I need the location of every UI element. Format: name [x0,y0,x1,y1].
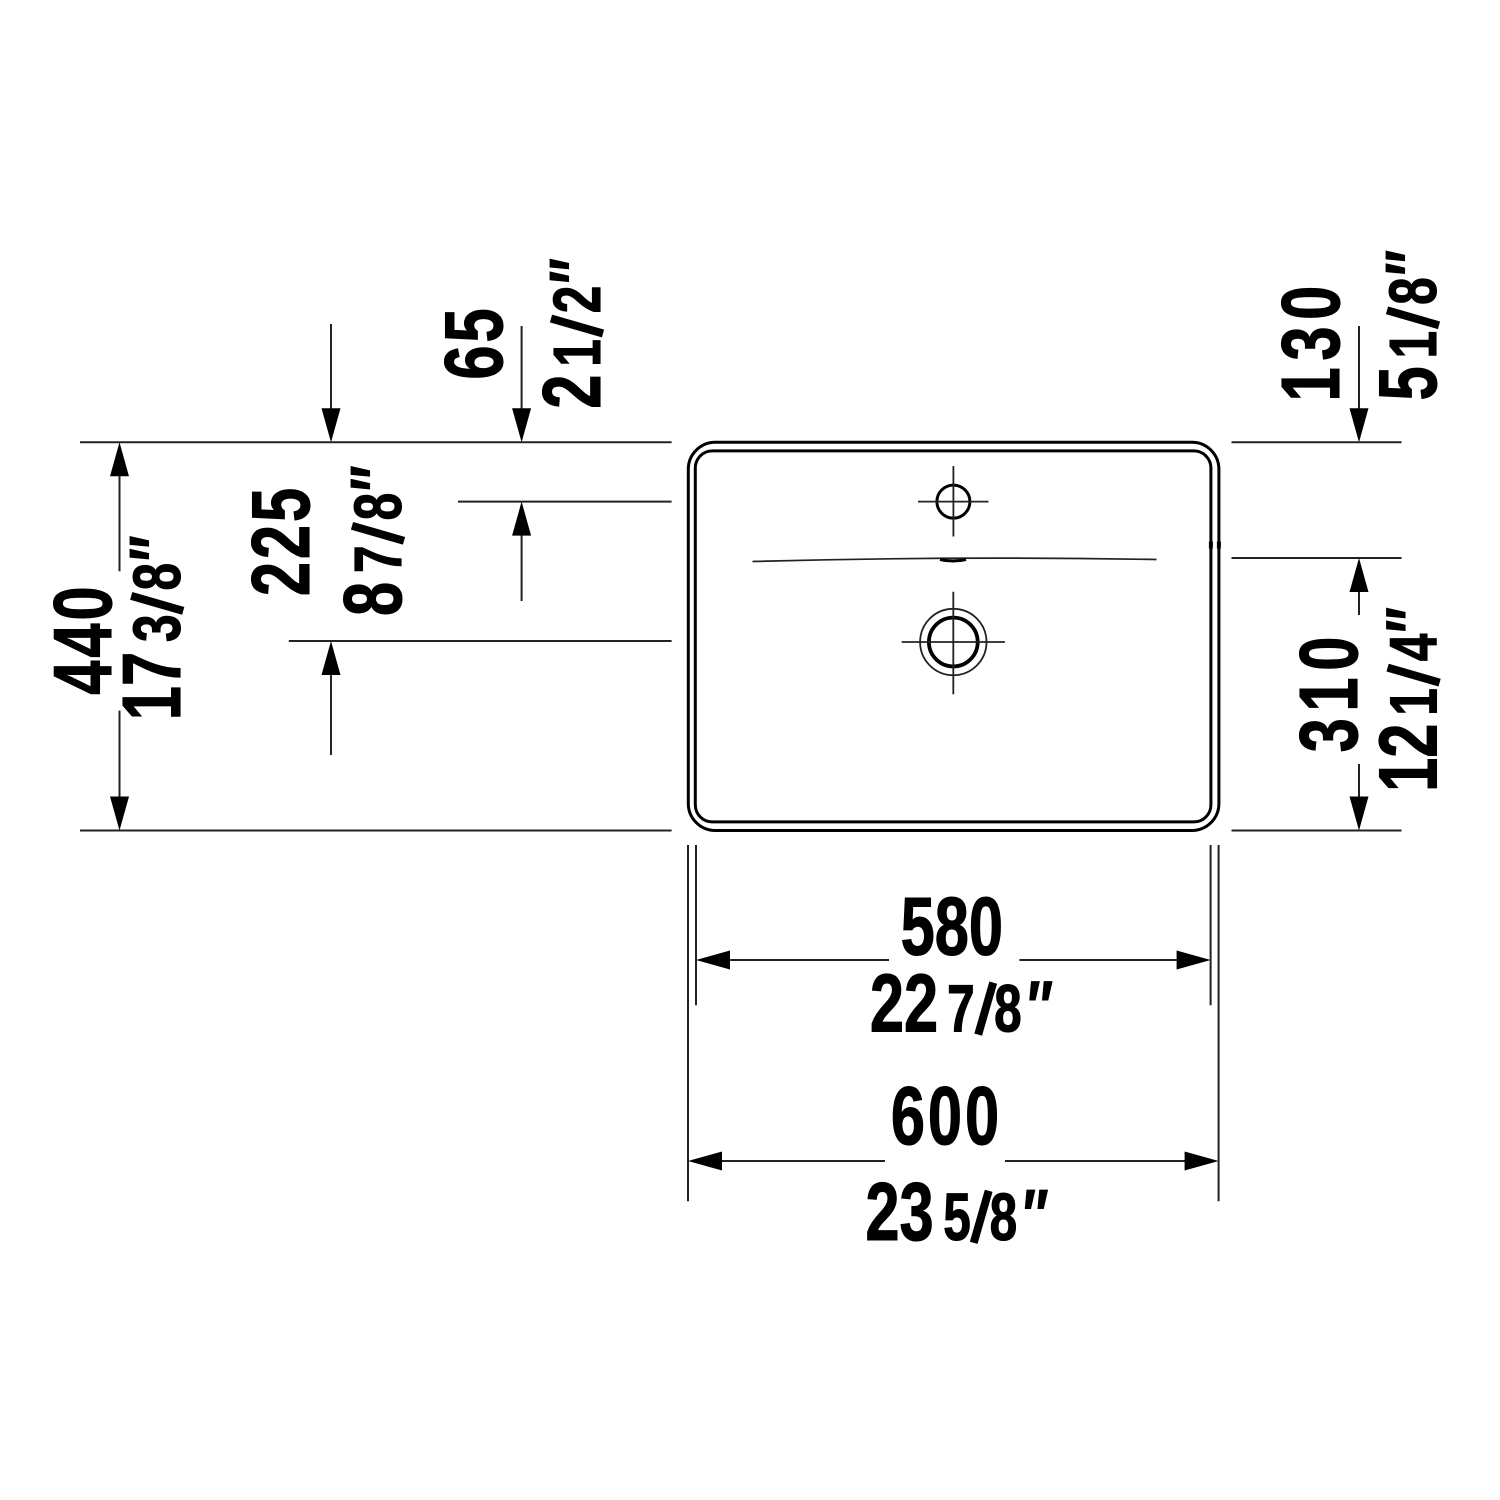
drain crosshair vertical [952,592,954,695]
svg-text:″: ″ [117,536,197,562]
basin inner rim [695,451,1211,822]
extension line 600 right vertical [1218,845,1220,1201]
drain outer circle [920,609,986,675]
svg-text:4: 4 [1377,634,1451,662]
dimension 130 arrow tail [1358,326,1360,410]
faucet hole circle [937,485,970,518]
svg-text:8: 8 [990,1181,1018,1255]
svg-text:130: 130 [1265,279,1357,401]
extension line top edge left [80,441,672,443]
extension line bottom edge left [80,830,672,832]
dimension 440 arrow down [110,797,129,831]
svg-text:″: ″ [1372,250,1452,276]
svg-text:1: 1 [541,339,615,367]
svg-text:1: 1 [1377,331,1451,359]
faucet crosshair vertical [952,466,954,537]
svg-text:65: 65 [428,305,520,379]
label 2 1/2 inch [526,258,618,408]
svg-text:3: 3 [121,614,195,642]
label 23 5/8 inch [865,1166,1048,1258]
dimension 130 arrow (down) [1350,408,1369,442]
dimension 600 line right [1005,1160,1187,1162]
dimension 225 top arrow tail [330,324,332,410]
dimension 310 bottom arrow (down) [1350,797,1369,831]
svg-text:225: 225 [235,485,327,596]
svg-text:23: 23 [865,1166,933,1258]
extension line 600 left vertical [687,845,689,1201]
drain inner circle [929,618,978,667]
svg-text:22: 22 [870,958,938,1050]
svg-text:″: ″ [1373,607,1453,633]
dimension 580 arrow right [1177,951,1211,970]
overflow center dash [940,560,966,562]
svg-text:8: 8 [1377,277,1451,305]
svg-text:″: ″ [337,466,417,492]
faucet crosshair horizontal [918,501,989,503]
svg-text:5: 5 [1362,366,1454,400]
svg-text:2: 2 [541,286,615,314]
svg-text:1: 1 [1377,688,1451,716]
svg-text:17: 17 [106,652,198,720]
dimension 440 arrow up [110,442,129,476]
drain crosshair horizontal [902,641,1005,643]
extension line top edge right [1232,441,1402,443]
dimension 440 line upper [119,474,121,571]
label 8 7/8 inch [327,466,419,616]
dimension 600 line left [720,1160,885,1162]
svg-text:″: ″ [1023,1176,1049,1256]
svg-text:600: 600 [891,1070,1002,1162]
dimension 225 bottom arrow (up) [322,641,341,675]
dimension 600 arrow right [1185,1152,1219,1171]
dimension 310 top arrow tail [1358,590,1360,615]
svg-text:8: 8 [994,972,1022,1046]
extension line 580 left vertical [695,845,697,1005]
extension line drain center [289,640,672,642]
label 22 7/8 inch [870,958,1053,1050]
dimension 580 arrow left [696,951,730,970]
overflow ledge line [753,558,1157,561]
dimension 65 bottom arrow tail [521,534,523,601]
dimension 580 line right [1019,959,1178,961]
rim tick right outer [1217,542,1221,549]
dimension 310 line lower [1358,764,1360,798]
dimension 65 top arrow (down) [512,408,531,442]
extension line overflow right [1232,557,1402,559]
svg-text:7: 7 [342,545,416,573]
dimension 580 line left [728,959,889,961]
svg-text:8: 8 [342,493,416,521]
dimension 310 top arrow (up) [1350,558,1369,592]
svg-text:8: 8 [327,582,419,616]
svg-text:″: ″ [536,258,616,284]
dimension 65 top arrow tail [521,326,523,410]
svg-text:″: ″ [1028,968,1054,1048]
dimension 600 arrow left [688,1152,722,1171]
extension line bottom edge right [1232,830,1402,832]
label 17 3/8 inch [106,536,198,721]
extension line 580 right vertical [1210,845,1212,1005]
rim tick right inner [1209,542,1213,549]
label 5 1/8 inch [1362,250,1454,400]
svg-text:12: 12 [1363,724,1455,792]
svg-text:7: 7 [947,972,975,1046]
dimension 65 bottom arrow (up) [512,502,531,536]
svg-text:2: 2 [526,375,618,409]
extension line faucet center [458,501,672,503]
dimension 225 bottom arrow tail [330,673,332,755]
basin outer rim [688,442,1219,830]
dimension 225 top arrow (down) [322,408,341,442]
svg-text:8: 8 [121,563,195,591]
label 12 1/4 inch [1363,607,1455,792]
dimension 440 line lower [119,711,121,798]
svg-text:310: 310 [1283,630,1375,752]
svg-text:5: 5 [943,1181,971,1255]
